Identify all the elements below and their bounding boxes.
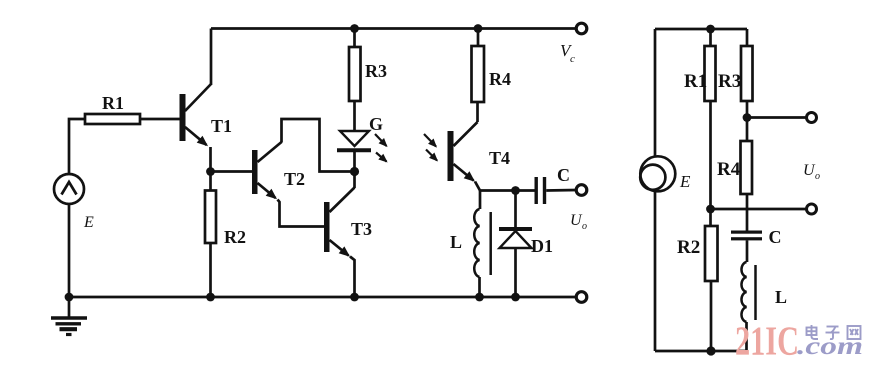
node T1 emitter junction [206,167,215,176]
resistor R3 [349,47,361,101]
wire D1 to bottom rail [514,248,517,297]
wire C to output terminal [546,189,576,192]
wire source bottom to ground rail [68,204,71,297]
wire rail corner to R3 right [746,29,749,46]
wire output node to D1 [514,191,517,229]
capacitor C right [731,231,762,241]
wire R3 to LED G [353,101,356,131]
wire mid node to lower terminal right [711,208,808,211]
wire R2 to bottom rail [209,243,212,297]
node R2 bottom junction [206,293,215,302]
svg-text:T4: T4 [489,148,510,168]
transistor T1 [180,84,212,145]
source E right [640,156,675,191]
wire L to bottom rail [478,277,481,297]
wire bottom rail left circuit [69,296,577,299]
wire source top to R1 [69,119,85,174]
wire mid node to R2 right [709,209,712,226]
wire R3 to node right [746,101,749,118]
wire T4 emitter to output node [475,182,535,191]
capacitor C [535,177,547,204]
resistor R3 right [741,46,753,101]
wire R1 to T1 base [140,118,180,121]
wire top rail to R3 [353,29,356,48]
wire node to upper terminal right [747,116,807,119]
node top rail R1 junction right [706,25,715,34]
node output junction [511,186,520,195]
wire top rail left circuit [211,27,577,30]
terminal output Uo [576,185,587,196]
node top rail R4 junction [474,24,483,33]
svg-text:21IC: 21IC [735,318,799,364]
wire top rail right circuit [655,28,747,31]
node T3 emitter bottom junction [350,293,359,302]
resistor R1 right [705,46,716,101]
wire node to R2 [209,172,212,191]
svg-text:R1: R1 [684,71,707,92]
wire T2 collector to LED node [282,119,352,172]
transistor T4 [424,122,478,181]
diode D1 [499,229,532,248]
svg-text:T3: T3 [351,219,372,239]
wire emitter node to L [479,191,482,210]
node LED cathode junction [350,167,359,176]
wire T3 collector to LED node [353,172,356,189]
svg-text:E: E [679,172,691,191]
watermark dianziwang glyphs [807,325,861,339]
wire R4 to T4 collector [476,102,479,122]
wire T1 emitter to node [209,147,212,172]
svg-text:D1: D1 [531,236,553,256]
wire E bottom lead [654,191,657,351]
svg-text:T1: T1 [211,116,232,136]
svg-text:E: E [83,214,94,231]
node D1 bottom junction [511,293,520,302]
svg-text:R1: R1 [102,93,124,113]
svg-text:o: o [582,221,587,232]
svg-text:R2: R2 [224,227,246,247]
inductor L right [741,262,755,322]
svg-text:T2: T2 [284,169,305,189]
transistor T2 [252,142,282,198]
terminal bottom [576,292,587,303]
wire R2 to bottom rail right [710,281,713,351]
svg-text:G: G [369,114,383,134]
resistor R2 [205,191,216,244]
node mid junction right [706,205,715,214]
svg-text:R3: R3 [365,61,387,81]
svg-text:L: L [450,232,462,252]
svg-text:R2: R2 [677,237,700,258]
wire rail to R1 right [709,29,712,46]
svg-text:R4: R4 [489,69,511,89]
svg-text:c: c [570,53,575,65]
wire T2 emitter to T3 base [278,200,325,227]
wire bottom rail right circuit [655,350,747,353]
terminal upper right [807,113,817,123]
wire node to T2 base [211,170,253,173]
svg-text:C: C [557,165,570,185]
wire T3 emitter to bottom rail [350,257,355,298]
inductor L [474,209,490,277]
node top rail R3 junction [350,24,359,33]
svg-text:R4: R4 [717,159,741,180]
source E [54,174,84,204]
wire R4 to C right [746,194,749,231]
wire top rail to R4 [477,29,480,47]
node L bottom junction [475,293,484,302]
svg-text:.com: .com [797,333,863,360]
resistor R2 right [705,226,718,281]
wire R1 to mid node right [709,101,712,209]
wire E top lead [654,29,657,157]
ground [51,297,87,335]
LED G [337,131,387,172]
terminal Vc [576,23,587,34]
resistor R4 [472,46,485,102]
node junction source/ground [65,293,74,302]
wire L to bottom rail right [745,322,748,351]
resistor R1 [85,114,140,124]
resistor R4 right [741,141,753,194]
svg-text:o: o [815,171,820,182]
node R2 bottom junction right [706,346,715,355]
wire T1 collector to top rail [210,29,213,86]
wire C to L right [746,240,749,262]
terminal lower right [807,204,817,214]
transistor T3 [324,188,355,256]
svg-text:R3: R3 [718,71,741,92]
svg-text:C: C [769,227,782,247]
node R3 bottom junction right [743,113,752,122]
wire node to R4 right [746,118,749,142]
svg-text:L: L [775,287,787,307]
